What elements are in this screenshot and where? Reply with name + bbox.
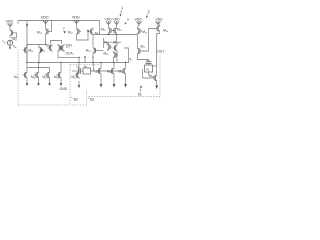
- svg-text:OUT: OUT: [157, 49, 164, 53]
- wire M53 down: [116, 52, 118, 63]
- transistor M31: [23, 46, 28, 54]
- wire: [80, 70, 83, 72]
- bottom NMOS M63: [121, 67, 126, 75]
- VDD symbol 2: [43, 21, 49, 25]
- ground arrow: [48, 79, 51, 86]
- wire: [76, 25, 78, 28]
- junction: [26, 62, 27, 63]
- wires: [108, 26, 110, 27]
- VDD symbol 7: [155, 22, 161, 26]
- power rail: [18, 20, 100, 22]
- bottom NMOS M42: [34, 71, 39, 79]
- transistor M17: [77, 28, 82, 36]
- gate bus right row: [97, 70, 122, 72]
- transistor M54: [114, 51, 119, 59]
- transistor M16: [152, 74, 157, 82]
- svg-text:1: 1: [121, 6, 123, 10]
- ground arrow: [26, 79, 29, 86]
- svg-text:VDD: VDD: [72, 16, 80, 20]
- wire diode loop: [10, 33, 17, 38]
- wire: rail right end down: [99, 21, 101, 35]
- wire gate bus: [98, 50, 104, 52]
- transistor M34: [58, 44, 63, 52]
- wire out branch to comp: [148, 60, 150, 62]
- vertical from bus34: [103, 38, 105, 48]
- resistor R3 box: [83, 68, 91, 74]
- wire M17 drain U to next gate: [77, 30, 89, 41]
- dashed right edge: [159, 56, 161, 97]
- dashed bottom left: [18, 104, 87, 106]
- wire down from M31: [26, 54, 28, 71]
- transistor M15 cascode: [138, 47, 143, 55]
- svg-text:VDD: VDD: [135, 18, 143, 22]
- svg-text:VDD: VDD: [113, 18, 121, 22]
- transistor M32: [39, 46, 44, 54]
- transistor M53: [113, 44, 118, 52]
- wire out to Rc: [153, 65, 157, 67]
- wire M16 drain to OUT: [156, 66, 158, 74]
- wire: [148, 64, 150, 65]
- wire: [92, 55, 94, 63]
- wire drain bus: [93, 34, 137, 36]
- wire M13 drain down: [137, 35, 139, 47]
- wire vref stem: [66, 46, 69, 49]
- wire M16 gate bus: [143, 69, 153, 78]
- wire M15 down then right: [138, 55, 149, 60]
- svg-text:3: 3: [127, 18, 129, 22]
- wire drains up: [60, 63, 62, 72]
- transistor M18: [89, 28, 94, 36]
- wire: [148, 72, 150, 76]
- transistor M22: [112, 27, 117, 35]
- svg-text:5: 5: [130, 58, 132, 62]
- wire vertical from rail x27: [26, 21, 28, 63]
- OUT line: [157, 33, 160, 67]
- bottom NMOS M41: [23, 71, 28, 79]
- transistor M14 output PMOS: [155, 25, 160, 33]
- ground arrow: [37, 79, 40, 86]
- capacitor C3: [78, 68, 80, 74]
- short bus wire: [27, 67, 50, 69]
- long bus wire: [27, 62, 129, 64]
- wire below Ib with arrow: [9, 45, 11, 48]
- wire tail: [113, 59, 115, 63]
- wire right of M53: [124, 48, 129, 63]
- wire: [9, 28, 11, 30]
- svg-text:GND: GND: [60, 87, 68, 91]
- dashed divider x70: [69, 65, 71, 106]
- svg-text:Vref: Vref: [66, 44, 72, 48]
- ground arrow M61: [100, 75, 102, 84]
- bottom NMOS M43: [45, 71, 50, 79]
- current source Ib circle: [7, 40, 12, 45]
- input pair wire top: [51, 41, 62, 45]
- bottom NMOS M62: [110, 67, 115, 75]
- wire: [113, 63, 115, 68]
- VDD symbol 6: [136, 22, 142, 26]
- transistor M12: [46, 28, 51, 36]
- dashed top mid: [70, 64, 100, 66]
- ground arrow M16: [156, 82, 158, 86]
- resistor Rc box: [145, 65, 153, 72]
- transistor M51: [93, 47, 98, 55]
- svg-text:61: 61: [138, 92, 142, 96]
- wire M12 drain down: [45, 36, 47, 45]
- svg-text:2: 2: [148, 9, 150, 13]
- wire pair source: [116, 35, 118, 43]
- ground arrow: [60, 79, 63, 86]
- svg-text:VDD: VDD: [156, 18, 164, 22]
- wire M12 gate loop: [50, 21, 52, 32]
- bottom NMOS M61: [97, 67, 102, 75]
- capacitor Cc: [146, 61, 152, 63]
- transistor M33: [48, 44, 53, 52]
- wire source join: [27, 44, 46, 46]
- ground arrow M63: [125, 75, 127, 84]
- svg-text:VDD: VDD: [41, 16, 49, 20]
- transistor M35: [60, 44, 65, 52]
- node arrowhead on wire: [26, 24, 28, 27]
- wire M14 gate to left and down: [142, 29, 155, 52]
- VDD symbol 1: [7, 24, 13, 28]
- wire: [125, 63, 127, 68]
- wire: [45, 25, 47, 28]
- ground arrow M62: [113, 75, 115, 84]
- VDD symbol 5: [114, 22, 120, 26]
- wire M18 drain down: [92, 36, 94, 47]
- dashed bottom right: [89, 95, 161, 97]
- transistor M52: [108, 43, 113, 51]
- wire: [100, 63, 102, 68]
- svg-text:7: 7: [63, 27, 65, 31]
- transistor M21: [109, 27, 114, 35]
- wire out: [91, 63, 94, 72]
- wire tail down: [58, 52, 79, 57]
- transistor M11 (diode connected): [10, 29, 15, 37]
- bottom NMOS M44: [57, 71, 62, 79]
- bottom NMOS M45: [75, 71, 80, 79]
- svg-text:VDD: VDD: [6, 20, 14, 24]
- svg-text:63: 63: [74, 97, 78, 101]
- wire: rail left end down: [17, 21, 19, 25]
- svg-text:62: 62: [90, 98, 94, 102]
- svg-text:VDD: VDD: [105, 18, 113, 22]
- dashed divider x94: [85, 90, 87, 105]
- ground arrow: [78, 81, 81, 88]
- wire down from M32: [38, 54, 40, 64]
- VDD symbol 3: [74, 21, 80, 25]
- dashed left edge: [17, 50, 19, 106]
- wire: [159, 25, 161, 28]
- wire: [138, 26, 140, 28]
- transistor M13: [138, 27, 143, 35]
- VDD symbol 4: [106, 22, 112, 26]
- wire in: [72, 70, 79, 72]
- arrow junction: [84, 57, 86, 60]
